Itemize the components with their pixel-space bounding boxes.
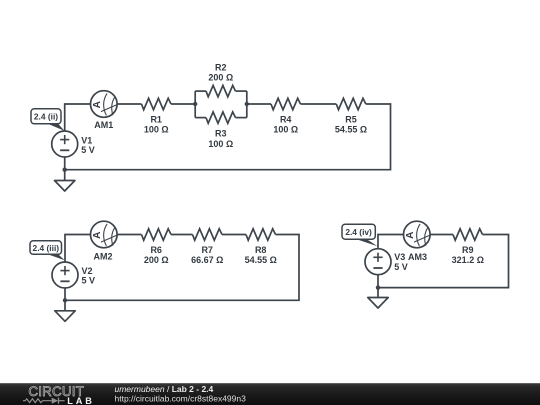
- wire AM2 to R6: [117, 234, 141, 236]
- resistor R2: [206, 85, 236, 96]
- svg-text:R7: R7: [201, 245, 213, 255]
- svg-text:54.55 Ω: 54.55 Ω: [335, 124, 367, 134]
- junction at V3 bottom: [376, 285, 380, 289]
- CircuitLab logo diode: [52, 398, 59, 404]
- footer bar: [0, 383, 540, 405]
- svg-text:2.4 (ii): 2.4 (ii): [34, 112, 58, 122]
- wire top branch left lead: [195, 90, 206, 92]
- wire R7 to R8: [222, 234, 246, 236]
- svg-text:321.2 Ω: 321.2 Ω: [452, 255, 484, 265]
- voltage source V2: [52, 262, 78, 288]
- resistor R5: [336, 98, 366, 109]
- svg-text:100 Ω: 100 Ω: [144, 124, 169, 134]
- flag 2.4 (iv): [354, 238, 378, 246]
- svg-text:R5: R5: [345, 114, 357, 124]
- ammeter AM2: [91, 221, 118, 248]
- svg-text:A: A: [92, 100, 103, 108]
- svg-text:5 V: 5 V: [394, 262, 408, 272]
- resistor R6: [142, 229, 172, 240]
- resistor R4: [271, 98, 301, 109]
- wire parallel block left vertical: [194, 91, 196, 118]
- wire AM1 to R1: [117, 103, 141, 105]
- wire R5 right return to bottom: [65, 104, 391, 170]
- ground circuit 1: [55, 181, 75, 192]
- svg-text:R3: R3: [215, 129, 227, 139]
- junction at V2 bottom: [63, 298, 67, 302]
- wire V3 top to AM3 left: [378, 235, 404, 249]
- ammeter AM1: [91, 91, 118, 118]
- svg-text:R2: R2: [215, 63, 227, 73]
- svg-text:R6: R6: [150, 245, 162, 255]
- wire bottom branch left lead: [195, 117, 206, 119]
- svg-text:2.4 (iii): 2.4 (iii): [33, 243, 60, 253]
- svg-text:V3: V3: [394, 252, 405, 262]
- svg-text:200 Ω: 200 Ω: [208, 73, 233, 83]
- svg-text:200 Ω: 200 Ω: [144, 255, 169, 265]
- resistor R1: [142, 98, 172, 109]
- svg-text:A: A: [92, 231, 103, 239]
- wire AM3 to R9: [430, 234, 453, 236]
- svg-text:R4: R4: [280, 114, 292, 124]
- node B junction: [245, 102, 249, 106]
- svg-text:54.55 Ω: 54.55 Ω: [245, 255, 277, 265]
- ammeter AM3: [404, 221, 431, 248]
- voltage source V1: [52, 131, 78, 157]
- svg-text:A: A: [405, 231, 416, 239]
- svg-text:http://circuitlab.com/cr8st8ex: http://circuitlab.com/cr8st8ex499n3: [115, 394, 247, 404]
- CircuitLab logo resistor zigzag: [23, 399, 52, 403]
- wire bottom branch right lead: [236, 117, 247, 119]
- ground circuit 2: [55, 311, 75, 322]
- svg-text:R1: R1: [150, 114, 162, 124]
- resistor R8: [246, 229, 276, 240]
- wire V1 top to AM1 left: [65, 104, 91, 131]
- wire top branch right lead: [236, 90, 247, 92]
- wire V2 bottom to ground: [64, 288, 66, 311]
- flag 2.4 (ii): [46, 123, 64, 131]
- wire V3 bottom to ground: [377, 275, 379, 298]
- svg-text:5 V: 5 V: [82, 276, 96, 286]
- svg-text:LAB: LAB: [67, 396, 95, 405]
- resistor R3: [206, 112, 236, 123]
- svg-text:AM3: AM3: [408, 252, 427, 262]
- wire R6 to R7: [171, 234, 193, 236]
- wire node B to R4: [247, 103, 271, 105]
- wire V2 top to AM2 left: [65, 235, 91, 262]
- svg-text:100 Ω: 100 Ω: [273, 124, 298, 134]
- ground circuit 3: [368, 298, 388, 309]
- svg-text:2.4 (iv): 2.4 (iv): [345, 227, 372, 237]
- node A junction: [193, 102, 197, 106]
- junction at V1 bottom: [62, 168, 66, 172]
- voltage source V3: [365, 249, 391, 275]
- svg-text:R8: R8: [255, 245, 267, 255]
- resistor R9: [453, 229, 483, 240]
- wire R4 to R5: [301, 103, 337, 105]
- svg-text:AM2: AM2: [93, 251, 112, 261]
- wire R8 right return to bottom: [65, 235, 299, 301]
- wire V1 bottom to ground: [64, 157, 66, 181]
- svg-text:AM1: AM1: [94, 120, 113, 130]
- svg-text:5 V: 5 V: [81, 145, 95, 155]
- svg-text:66.67 Ω: 66.67 Ω: [191, 255, 223, 265]
- svg-text:umermubeen / Lab 2 - 2.4: umermubeen / Lab 2 - 2.4: [115, 384, 214, 394]
- flag 2.4 (iii): [46, 254, 65, 261]
- wire parallel block right vertical: [246, 91, 248, 118]
- svg-text:R9: R9: [462, 245, 474, 255]
- resistor R7: [193, 229, 223, 240]
- wire R9 right return to bottom: [378, 235, 509, 288]
- wire R1 to node A: [171, 103, 195, 105]
- svg-text:100 Ω: 100 Ω: [208, 139, 233, 149]
